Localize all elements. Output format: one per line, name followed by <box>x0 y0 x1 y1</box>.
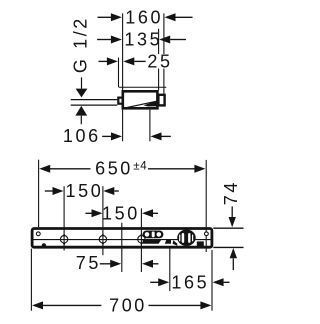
extension line x=212 (700/165 right) <box>211 250 213 311</box>
G 1/2 arrow up <box>75 106 87 116</box>
dim 650 line right <box>148 168 195 170</box>
svg-text:700: 700 <box>109 296 147 316</box>
G 1/2 arrow down <box>76 89 88 98</box>
dim 106 arrow right <box>151 132 162 140</box>
svg-text:150: 150 <box>102 204 140 224</box>
dim 150b arrow right <box>142 209 153 217</box>
dim 165 tail left <box>150 281 158 283</box>
dim 700 arrow left <box>32 301 43 309</box>
dim 650 arrow left <box>39 165 50 173</box>
dim 135 tail right <box>170 39 186 41</box>
bottom stud dot <box>42 243 46 247</box>
pipe top line <box>71 99 118 101</box>
dim 75 arrow left <box>110 260 121 268</box>
extension line x=121.8 (outlet centerline) <box>121 223 123 272</box>
dim 75 arrow right <box>142 260 153 268</box>
dim 74 arrow down <box>229 217 236 227</box>
svg-text:±4: ±4 <box>133 161 147 173</box>
extension line x=149.9 (106 dim) <box>149 110 151 142</box>
dim 25 arrow left <box>107 57 118 65</box>
svg-text:74: 74 <box>221 180 241 205</box>
extension line front-face x=122.6 lower (to 106 row) <box>122 110 124 142</box>
svg-text:150: 150 <box>65 181 103 201</box>
svg-text:25: 25 <box>147 52 172 72</box>
dim 165 arrow right <box>213 278 224 286</box>
extension line x=38.6 (650 left / wall hole) <box>38 160 40 227</box>
dim 150a arrow right <box>103 187 114 195</box>
button dot right <box>157 232 162 237</box>
diagonal lever wedge <box>144 101 157 107</box>
wall thin line <box>119 86 166 88</box>
dim 75 tail left <box>100 263 111 265</box>
dim 150a tail right <box>114 190 119 192</box>
pipe bottom line <box>71 104 118 106</box>
dim 150a tail left <box>45 190 53 192</box>
left wall hole <box>36 232 40 236</box>
dim 74 ext top <box>213 227 243 229</box>
right wall hole <box>205 232 209 236</box>
dim 75 tail right <box>153 263 158 265</box>
knob rib sliver right <box>192 235 193 242</box>
extension line front-of-handle x=118.5 <box>118 58 120 88</box>
dim 135 tail left <box>97 39 111 41</box>
extension line x=64.1 (hole1) <box>63 186 65 250</box>
bottom trim nub <box>173 240 178 245</box>
dim 106 tail right <box>162 135 171 137</box>
svg-text:106: 106 <box>63 126 101 146</box>
dim 160 tail right <box>176 16 193 18</box>
dim 700 arrow right <box>200 301 211 309</box>
svg-text:135: 135 <box>124 30 162 50</box>
shower bar body <box>32 229 212 248</box>
dim 74 arrow up <box>230 248 237 258</box>
knob base block <box>197 241 204 246</box>
dim 165 arrow left <box>158 278 169 286</box>
extension line x=206.2 (650 right / wall hole) <box>205 160 207 252</box>
dim 135 arrow right <box>159 36 170 44</box>
dim 650 arrow right <box>194 165 205 173</box>
G 1/2 arrow up tail <box>80 116 82 125</box>
extension line x=163.9 (160 dim) <box>163 13 165 95</box>
select button band <box>143 231 164 239</box>
bottom trim strip left <box>143 240 162 244</box>
svg-text:160: 160 <box>125 8 163 28</box>
G 1/2 leader line <box>81 77 83 88</box>
bar inner groove line <box>34 239 211 241</box>
knob slot left <box>182 233 185 243</box>
extension line x=31.4 (700 left) <box>30 249 32 311</box>
dim 150b arrow left <box>92 209 103 217</box>
extension line x=141.4 (hole3) <box>140 208 142 272</box>
bottom trim strip right <box>165 239 171 243</box>
dim 74 top leader <box>231 206 233 217</box>
dim 135 arrow left <box>111 36 122 44</box>
svg-text:75: 75 <box>76 253 101 273</box>
drill marker 1 <box>60 233 67 246</box>
dim 650 line left <box>50 168 91 170</box>
valve body <box>123 91 158 108</box>
extension line x=158.6 (135 dim) <box>158 29 160 91</box>
dim 160 arrow right <box>165 13 176 21</box>
dim 106 arrow left <box>111 132 122 140</box>
dim 25 arrow right <box>123 57 134 65</box>
dim 165 tail right <box>224 281 230 283</box>
dim 700 line left <box>43 304 102 306</box>
dim 150a arrow left <box>53 187 64 195</box>
dim 160 tail left <box>98 16 112 18</box>
svg-text:G 1/2: G 1/2 <box>71 16 91 73</box>
dim 25 tail right <box>134 60 145 62</box>
wall connector bump right <box>158 95 164 106</box>
svg-text:165: 165 <box>171 273 209 293</box>
diagonal lever line <box>124 101 157 108</box>
extension line x=169.8 (165 left) <box>169 247 171 292</box>
drill marker 3 <box>138 233 145 246</box>
dim 25 tail left <box>99 60 108 62</box>
button slot center <box>152 232 155 238</box>
thermostat knob <box>177 230 196 246</box>
knob slot right <box>188 233 190 243</box>
svg-text:650: 650 <box>95 159 133 179</box>
knob rib sliver left <box>179 235 180 242</box>
dim 160 arrow left <box>111 13 122 21</box>
dim 150b tail right <box>153 212 158 214</box>
handle bump left <box>118 98 122 104</box>
dim 700 line right <box>149 304 202 306</box>
dim 106 tail left <box>102 135 111 137</box>
extension line front-face x=122.6 upper <box>122 13 124 90</box>
label 25 (with mask) <box>146 54 172 69</box>
button dot left <box>145 232 150 237</box>
dim 74 ext bottom <box>213 246 243 248</box>
dim 74 bottom tail <box>232 258 234 270</box>
drill marker 2 <box>99 233 106 246</box>
dim 150b tail left <box>85 212 92 214</box>
extension line x=102.9 (hole2) <box>102 186 104 255</box>
